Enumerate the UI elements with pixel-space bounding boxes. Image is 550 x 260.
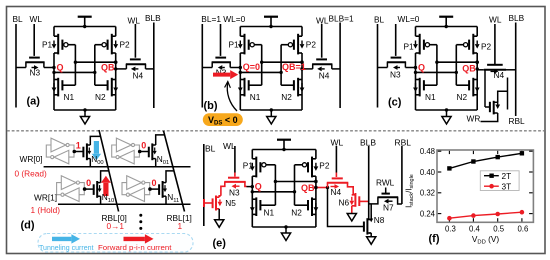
node lower cross-couple rail [240,71,281,73]
transistor P1 [53,27,55,37]
svg-text:Q: Q [418,63,425,73]
wire BL to N3 [378,67,388,69]
wire N4 to BLB/RBL line (c) [506,69,516,71]
wire N4 to BLB [332,68,340,70]
svg-text:N6: N6 [339,197,350,207]
node upper cross-couple rail [437,61,477,63]
red gate lead N6 to BLB (e) [359,200,368,202]
plot y tick marks [438,150,442,152]
transistor P2 [115,27,117,37]
node Q junctions [414,66,417,69]
svg-text:VDD (V): VDD (V) [472,234,500,246]
bitline BL [377,24,379,108]
current arrow N01 [154,148,156,151]
wire WL to N3 gate [395,24,397,56]
ground [270,110,272,117]
current arrow N00 [88,148,90,151]
svg-text:QB=1: QB=1 [282,62,306,72]
wire VDD rail [416,26,478,28]
upper cross-couple rail (e) [275,181,316,183]
current arrow P2 [115,41,117,45]
node upper cross-couple rail [262,61,302,63]
current arrow N2 [476,83,478,88]
svg-text:N2: N2 [95,92,106,102]
node Q junction dots (e) [251,185,254,188]
wire WL to N3 gate (e) [234,146,236,173]
wire latch output to gate [85,188,94,190]
svg-text:P2: P2 [120,40,131,50]
wire inverter-2 input [94,45,96,85]
svg-text:Q=0: Q=0 [243,62,260,72]
current arrow N3 [222,67,225,69]
red wire QB to N4 (e) [314,187,328,189]
svg-text:N4: N4 [494,70,505,80]
red wire N3 left lead down (e) [221,182,225,196]
bitline BLB/RBL (c) [515,23,517,117]
wire node QB to N4 (c) [477,69,484,71]
svg-text:1: 1 [76,141,81,151]
wire N5 source to ground (e) [218,209,220,220]
red wire N3 right lead to Q (e) [245,182,247,187]
transistor N7 pass-style (e) [377,196,398,198]
current arrow P1 [53,41,55,45]
current arrow P1 [239,41,241,45]
latch output node [73,150,77,154]
svg-text:WR[1]: WR[1] [34,193,57,203]
wire N3 to node Q [44,67,54,69]
svg-text:0.5: 0.5 [493,224,505,233]
svg-text:Q: Q [255,182,262,192]
node QB junctions [114,61,117,64]
svg-text:0.4: 0.4 [469,224,481,233]
ground (e N8) [367,237,376,245]
wire latch output to gate [74,151,83,153]
plot legend box [480,171,519,191]
svg-text:0: 0 [141,141,146,151]
wire inverter-2 input (e) [294,165,296,205]
red current arrow N5 (e) [219,200,221,202]
current arrow N10 [99,185,101,188]
svg-text:N8: N8 [374,215,385,225]
svg-text:1: 1 [178,221,183,231]
transistor N3 pass-gate [215,57,226,59]
lower cross-couple rail (e) [252,191,294,193]
svg-text:2T: 2T [502,171,512,181]
transistor P1 [415,27,417,37]
svg-text:BLB: BLB [360,137,376,147]
transistor N1 (e) [255,197,257,216]
bitline BL [201,24,203,108]
tunneling current blue arrow (d) [94,141,99,154]
data series 3T red [449,212,522,218]
svg-text:Tunneling current: Tunneling current [39,243,94,252]
red N4 left lead (e) [327,183,329,188]
wire N01 drain to RBL diagonal [156,135,165,145]
ground [446,110,448,117]
svg-text:0.48: 0.48 [420,147,435,156]
bitline RBL[0] diagonal [99,130,119,212]
legend 2T entry [484,175,499,177]
current arrow N2 [301,83,303,88]
transistor P1 [239,27,241,37]
current arrow N4 (c) [491,70,495,72]
current arrow P1 [415,41,417,45]
current arrow N7 (e) [389,200,393,202]
wire latch output to gate [140,151,149,153]
wire drain stub (c) [507,78,509,110]
plot x tick marks [448,218,450,221]
svg-text:P1: P1 [229,40,240,50]
bitline BL [15,24,17,108]
svg-text:(d): (d) [21,220,35,232]
wire node QB to N4 [302,68,313,70]
wire BL to N3 [16,67,26,69]
curved annotation arrow (b) [227,83,237,112]
wire N3 to node Q [230,67,240,69]
bitline RBL (e) [401,146,403,204]
transistor N11 [158,184,160,195]
wire N7 right lead to RBL (e) [398,197,402,204]
wire NMOS source rail [54,109,116,111]
svg-text:N4: N4 [133,71,144,81]
svg-text:QB: QB [101,63,115,73]
wire latch output to gate [150,188,159,190]
red WL stub N4 (e) [335,173,337,178]
RWL gate tap N7 (e) [385,188,387,194]
svg-text:BL=1 WL=0: BL=1 WL=0 [201,14,245,24]
VDS<0 callout pill (b) [203,113,243,126]
current arrow N2 [115,83,117,88]
wire VDD rail [240,26,302,28]
svg-text:P2: P2 [319,160,330,170]
node lower cross-couple rail [416,71,457,73]
svg-text:P1: P1 [243,160,254,170]
wire inverter-1 input (e) [274,165,276,205]
current arrow N1 [53,83,55,88]
svg-text:0.32: 0.32 [420,189,435,198]
bitline BL (e) [203,144,205,226]
legend 3T entry [484,185,499,187]
current arrow N3 [32,67,35,69]
wire WL to N3 gate [220,24,222,56]
wire WL to N4 gate [134,24,136,58]
svg-text:(e): (e) [213,238,227,250]
transistor N1 [57,78,59,97]
svg-text:BL: BL [13,14,24,24]
bitline RBL[1] diagonal [164,131,185,212]
read transistor WR (c) [489,102,491,112]
wire N10 source to WR line [100,196,102,204]
svg-text:WR: WR [467,114,481,124]
power VDD symbol [270,17,272,27]
transistor N00 [82,147,84,158]
ellipsis dots [139,214,142,217]
node QB junction dots (e) [314,180,317,183]
svg-text:N1: N1 [264,207,275,217]
current arrow N8 (e) [370,215,372,219]
wire read-port gate from QB line (c) [484,70,486,107]
power VDD symbol (e) [283,140,285,150]
wire WR to read source (c) [481,113,498,122]
transistor N2 [472,78,474,97]
svg-text:VDS < 0: VDS < 0 [208,115,238,127]
svg-text:N1: N1 [250,92,261,102]
svg-text:WL: WL [331,137,344,147]
node lower cross-couple rail [54,71,95,73]
node Q junctions [52,66,55,69]
node upper cross-couple rail [75,61,115,63]
power VDD symbol [445,17,447,27]
svg-text:0→1: 0→1 [107,221,125,231]
bitline BLB [153,23,155,109]
latch output node [148,187,152,191]
ground (e N5) [215,220,224,228]
svg-text:RBL: RBL [395,137,412,147]
wire N7 left lead to BLB (e) [369,197,378,204]
data series 2T black [449,153,522,168]
wire WL to N4 gate (e) [335,146,337,173]
svg-text:WL: WL [316,16,329,26]
svg-text:(c): (c) [388,97,402,109]
wire VDD rail (e) [252,149,316,151]
transistor N10 [93,184,95,195]
svg-text:N1: N1 [425,92,436,102]
svg-text:0.40: 0.40 [420,168,436,177]
svg-text:3T: 3T [502,181,512,191]
latch storage glyph [46,138,74,164]
wire BL to N3 [202,67,212,69]
transistor N2 [297,78,299,97]
current arrow N4 [135,68,138,70]
wire N10 drain to RBL diagonal [101,171,109,183]
transistor N6 red (e) [354,193,356,207]
svg-text:BLB: BLB [145,13,161,23]
dashed panel divider [7,130,544,132]
wire N4 to BLB [146,68,154,70]
wire inverter-1 input [74,45,76,85]
svg-text:WL: WL [128,16,141,26]
transistor P2 [301,27,303,37]
current arrow N2 (e) [315,203,317,207]
svg-text:N4: N4 [319,71,330,81]
transistor P1 (e) [251,150,253,159]
legend box (d) [38,234,193,253]
bitline BLB (e) [368,146,370,219]
red current arrow N3 (e) [236,185,240,187]
svg-text:N2: N2 [281,92,292,102]
svg-text:BLB=1: BLB=1 [329,14,355,24]
svg-text:P1: P1 [42,40,53,50]
red wire N6 source down (e) [351,206,353,214]
current arrow N1 (e) [251,203,253,207]
svg-text:0 (Read): 0 (Read) [15,169,48,179]
current arrow P2 [476,41,478,45]
svg-text:0.6: 0.6 [517,224,528,233]
current arrow N4 [322,68,325,70]
svg-text:BLB: BLB [509,13,525,23]
latch storage glyph [112,138,140,164]
svg-text:N2: N2 [291,207,302,217]
node Q junctions [239,66,242,69]
transistor N3 pass-gate [391,57,402,59]
svg-text:WL=0: WL=0 [398,14,420,24]
svg-text:N2: N2 [457,92,468,102]
svg-text:N3: N3 [30,68,41,78]
red wire N5 drain up (e) [219,196,221,197]
svg-text:QB: QB [462,64,476,74]
svg-text:WL: WL [30,14,43,24]
svg-text:N7: N7 [383,202,394,212]
svg-text:RWL: RWL [376,178,395,188]
svg-text:N5: N5 [225,198,236,208]
transistor N5 red (e) [215,196,217,211]
transistor N4 pass-gate [316,58,327,60]
wire to node Q (e) [247,186,253,188]
transistor N2 (e) [311,197,313,216]
word line WR[0] [44,166,191,168]
latch storage glyph [122,176,150,202]
svg-text:P2: P2 [481,41,492,51]
svg-text:1 (Hold): 1 (Hold) [31,205,61,215]
wire WL to N3 gate [33,24,35,56]
current arrow P2 (e) [315,163,317,167]
latch output node [138,150,142,154]
panel (f) plot frame [437,150,533,222]
transistor N3 red pass-gate (e) [228,177,239,179]
svg-text:(f): (f) [429,233,440,245]
ground [84,110,86,117]
wire VDD rail [54,26,116,28]
ground (e N6) [347,214,356,222]
wire N11 source to WR line [165,196,167,204]
wire NMOS source rail [240,109,302,111]
wire N00 drain to RBL diagonal [90,136,100,145]
transistor N4 pass-gate (c) [487,64,503,66]
svg-text:N3: N3 [229,187,240,197]
red current arrow N6 (e) [351,197,353,201]
transistor N1 [419,78,421,97]
transistor N01 [148,147,150,158]
svg-text:N3: N3 [390,69,401,79]
power VDD symbol [84,17,86,27]
svg-text:N1: N1 [64,92,75,102]
wire QB to N8 gate (e) [328,188,364,227]
wire read drain to RBL (c) [498,91,508,102]
svg-text:0: 0 [152,178,157,188]
svg-text:0: 0 [86,178,91,188]
wire inverter-2 input [455,45,457,85]
current arrow N1 [239,83,241,88]
node QB junctions [476,61,479,64]
bitline BLB [339,23,341,109]
svg-text:Forward p-i-n current: Forward p-i-n current [98,243,172,252]
wire node QB to N4 [116,68,127,70]
wire WL to N4 gate (c) [494,24,496,64]
latch output node [83,187,87,191]
current arrow N11 [164,185,166,188]
current arrow P1 (e) [251,163,253,167]
svg-text:WR[0]: WR[0] [20,154,43,164]
wire inverter-1 input [436,45,438,85]
current arrow N3 [398,67,401,69]
legend forward arrow [124,237,145,241]
disturb current red arrow (b) [213,73,230,77]
svg-text:BL: BL [205,143,216,153]
wire WL to N4 gate [321,24,323,58]
word line WR[1] [58,203,191,205]
ground (e core) [285,227,287,233]
svg-text:WL: WL [223,141,236,151]
transistor P2 [476,27,478,37]
wire N01 source to WR line [155,159,157,167]
svg-text:BL: BL [374,15,385,25]
wire inverter-2 input [280,45,282,85]
transistor N4 red pass-gate (e) [332,177,343,179]
current arrow P2 [301,41,303,45]
wire N8 drain up (e) [370,204,372,220]
transistor P2 (e) [315,150,317,159]
red gate tap N5 to BL (e) [203,199,205,207]
current arrow N1 [415,83,417,88]
svg-text:(a): (a) [27,96,41,108]
svg-text:0.3: 0.3 [445,224,456,233]
current arrow read transistor (c) [497,101,499,105]
red current arrow N4 (e) [331,186,335,188]
svg-text:P1: P1 [404,41,415,51]
NMOS source rail (e) [252,226,316,228]
svg-text:N4: N4 [331,187,342,197]
wire N00 source to WR line [89,159,91,167]
forward p-i-n current red arrow (d) [103,183,108,196]
svg-text:0.24: 0.24 [420,209,436,218]
transistor N8 (e) [363,222,365,232]
svg-text:QB: QB [301,183,315,193]
svg-text:Q: Q [57,63,64,73]
svg-text:RBL: RBL [509,116,526,126]
svg-text:WL: WL [489,15,502,25]
legend tunneling arrow [52,237,71,241]
wire inverter-1 input [261,45,263,85]
red WL stub N3 (e) [234,173,236,177]
red N4 right lead down to N6 (e) [348,183,354,195]
transistor N4 pass-gate [130,58,141,60]
transistor N2 [111,78,113,97]
transistor N3 pass-gate [29,57,40,59]
transistor N1 [244,78,246,97]
svg-text:P2: P2 [306,40,317,50]
svg-text:(b): (b) [204,100,218,112]
wire NMOS source rail [416,109,478,111]
latch storage glyph [57,176,85,202]
wire N11 drain to RBL diagonal [166,171,174,183]
wire N8 source to ground (e) [370,233,372,237]
wire N3 to node Q [405,67,415,69]
node QB junctions [300,61,303,64]
